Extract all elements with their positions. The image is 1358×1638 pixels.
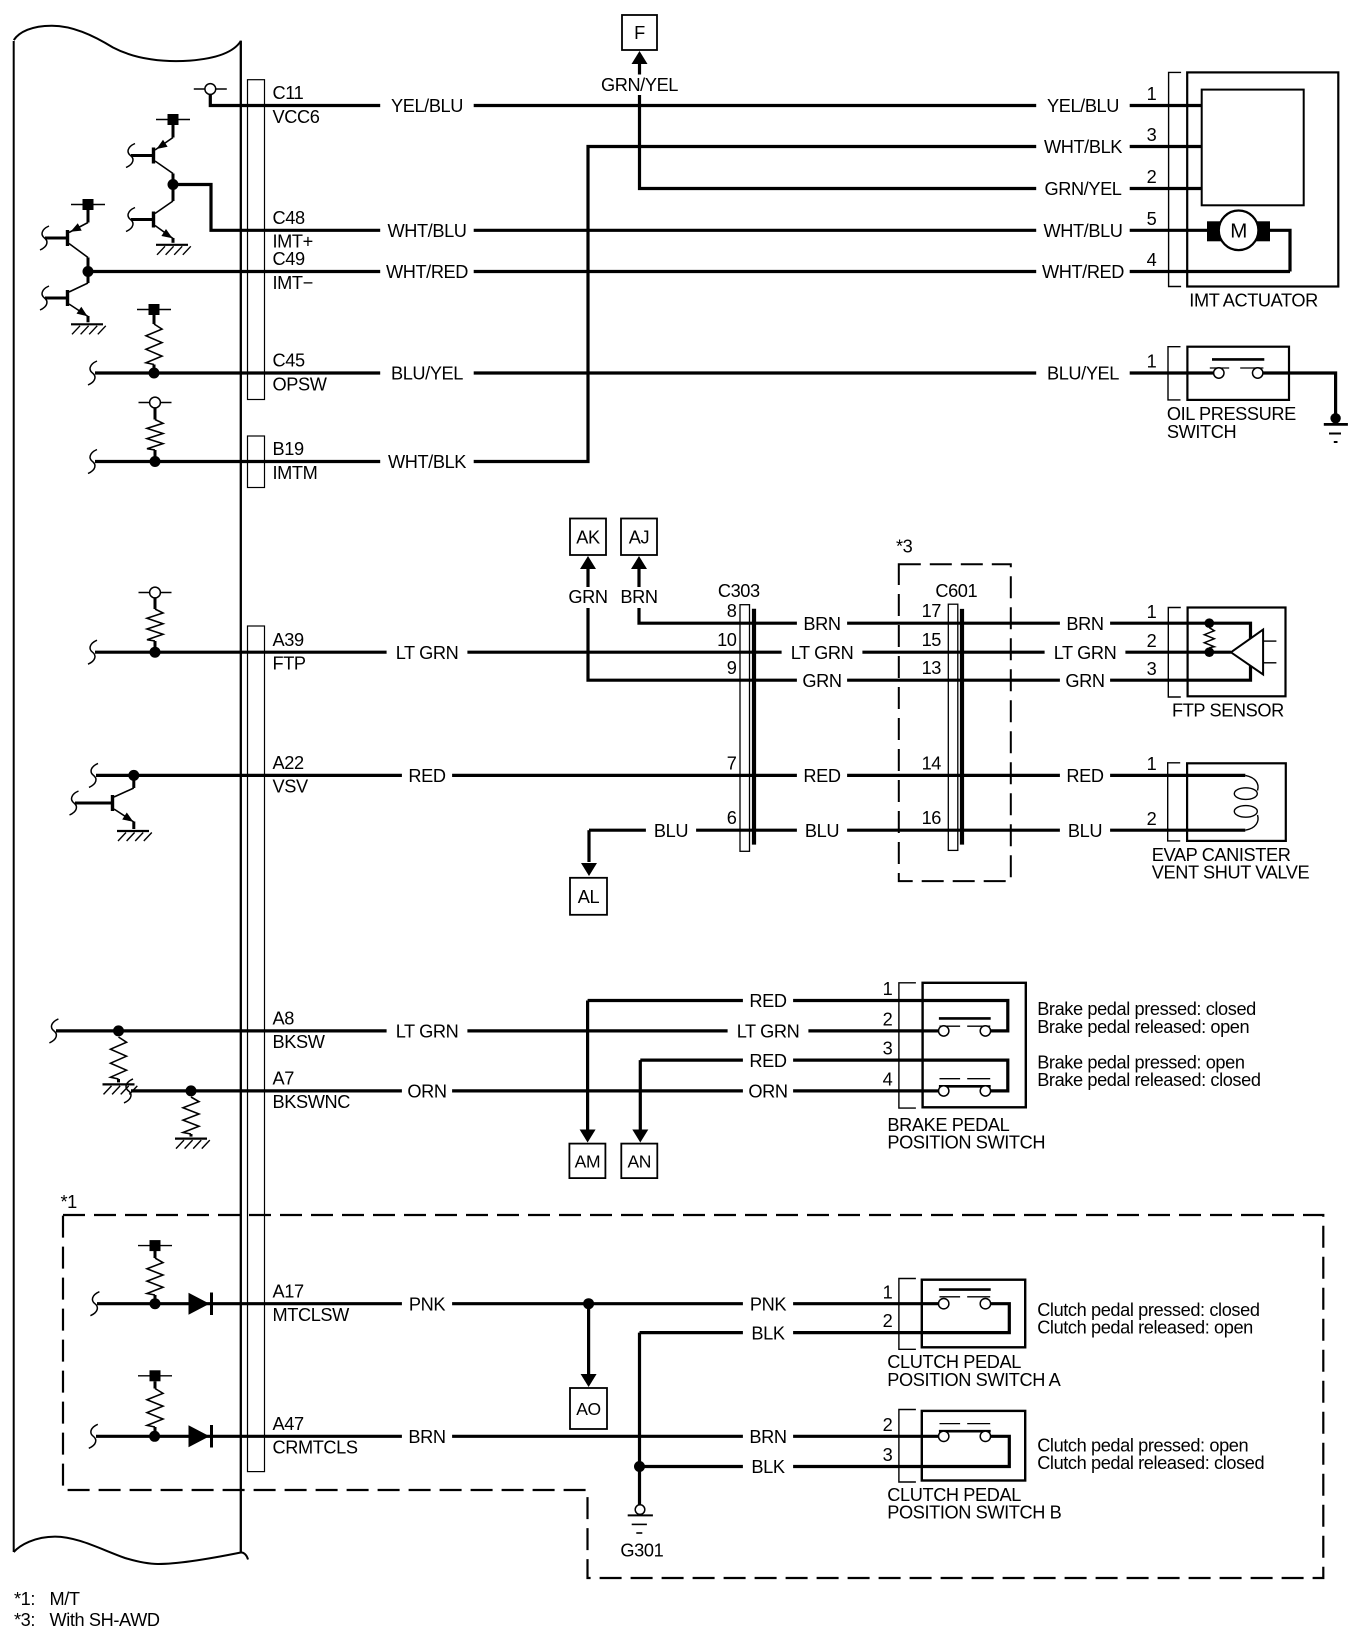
motor M (IMT actuator) [1207, 211, 1270, 251]
brake switch state annotations [1037, 999, 1260, 1090]
node B19 junction [150, 456, 161, 467]
pin B19/IMTM label [273, 439, 318, 483]
pin A7/BKSWNC label [273, 1069, 351, 1113]
svg-text:PNK: PNK [409, 1294, 445, 1314]
transistor Q2 (NPN low-side, IMT+) [126, 185, 173, 243]
svg-text:AM: AM [575, 1151, 600, 1171]
node C49 junction [83, 266, 94, 277]
svg-text:*3:: *3: [14, 1610, 35, 1630]
clutch switch B state annotations [1037, 1435, 1264, 1472]
svg-text:IMT−: IMT− [273, 273, 313, 293]
svg-text:OPSW: OPSW [273, 374, 328, 394]
diode D1 (A17) [189, 1293, 212, 1316]
svg-text:C48: C48 [273, 208, 305, 228]
svg-text:IMTM: IMTM [273, 463, 318, 483]
BRAKE PEDAL POSITION SWITCH caption [887, 1115, 1045, 1153]
FTP SENSOR box [1188, 608, 1286, 697]
svg-text:10: 10 [717, 630, 737, 650]
wire WHT/RED: C49 to IMT ACTUATOR pin 4 [88, 230, 1290, 282]
svg-text:RED: RED [408, 766, 445, 786]
ECM connector rectangle group 2 (B19) [248, 436, 265, 488]
svg-text:BLU: BLU [805, 821, 839, 841]
svg-text:RED: RED [749, 1051, 786, 1071]
wire BLU/YEL: C45 to OIL PRESSURE SWITCH pin 1 [95, 364, 1214, 384]
svg-text:1: 1 [1147, 754, 1157, 774]
svg-text:5: 5 [1147, 209, 1157, 229]
C601 pin numbers [922, 601, 942, 828]
svg-text:RED: RED [1066, 766, 1103, 786]
svg-text:BKSWNC: BKSWNC [273, 1092, 351, 1112]
svg-text:C45: C45 [273, 351, 305, 371]
arrow to AL [581, 830, 597, 876]
svg-text:1: 1 [1147, 602, 1157, 622]
arrow to AK + GRN tag [568, 556, 607, 607]
OIL PRESSURE SWITCH contacts [1210, 359, 1265, 378]
svg-text:2: 2 [1147, 167, 1157, 187]
pull-up supply circle (VCC6) [194, 84, 227, 95]
svg-text:LT GRN: LT GRN [791, 643, 854, 663]
svg-text:A17: A17 [273, 1281, 304, 1301]
pull-up circle + resistor (IMTM) [139, 397, 172, 461]
wire BLK: clutch switch A pin 2 to G301 [640, 1323, 922, 1505]
wire PNK: A17 to clutch switch A pin 1 and AO [97, 1294, 922, 1314]
BRAKE PEDAL POSITION SWITCH box [923, 983, 1026, 1108]
svg-text:3: 3 [883, 1445, 893, 1465]
pin A17/MTCLSW label [273, 1281, 351, 1325]
svg-text:3: 3 [1147, 659, 1157, 679]
wire WHT/BLU: C48 to IMT ACTUATOR pin 5 [173, 185, 1207, 242]
CLUTCH PEDAL POSITION SWITCH A connector bracket [899, 1279, 916, 1350]
svg-text:6: 6 [727, 808, 737, 828]
wire LT GRN: A39 to FTP SENSOR pin 2 [95, 643, 1231, 663]
svg-text:9: 9 [727, 658, 737, 678]
C303 pin numbers [717, 601, 737, 828]
svg-text:VSV: VSV [273, 777, 309, 797]
svg-text:AJ: AJ [629, 528, 649, 548]
svg-text:B19: B19 [273, 439, 304, 459]
svg-text:1: 1 [1147, 84, 1157, 104]
wire BLK: clutch switch B pin 3 [640, 1457, 922, 1477]
FTP SENSOR connector bracket [1168, 608, 1181, 698]
pin C11/VCC6 label [273, 83, 320, 127]
svg-text:FTP: FTP [273, 654, 306, 674]
transistor Q5 (NPN, VSV driver) [70, 775, 134, 829]
clutch switch A pin numbers [883, 1282, 893, 1331]
svg-text:A22: A22 [273, 753, 304, 773]
svg-text:LT GRN: LT GRN [396, 1022, 459, 1042]
svg-text:4: 4 [1147, 250, 1157, 270]
pin C48/IMT+ label [273, 208, 313, 252]
svg-text:14: 14 [922, 753, 942, 773]
svg-text:Brake pedal released: open: Brake pedal released: open [1037, 1017, 1249, 1037]
dashed option box *3 (With SH-AWD) [896, 537, 1011, 882]
svg-text:C601: C601 [935, 581, 977, 601]
wire YEL/BLU: C11 to IMT ACTUATOR pin 1 [210, 95, 1201, 117]
CLUTCH PEDAL POSITION SWITCH B connector bracket [899, 1410, 916, 1483]
svg-text:WHT/BLK: WHT/BLK [1044, 137, 1122, 157]
broken-wire squiggle (A47 row) [89, 1424, 98, 1448]
ECM connector rectangle group 3 (A-pins) [248, 626, 265, 1472]
svg-text:4: 4 [883, 1070, 893, 1090]
EVAP VALVE pin numbers [1147, 754, 1157, 829]
svg-text:CRMTCLS: CRMTCLS [273, 1438, 358, 1458]
connector box AJ [621, 519, 657, 556]
svg-text:2: 2 [883, 1311, 893, 1331]
resistor to ground (BKSW input) [111, 1037, 127, 1082]
clutch switch B contacts (normally closed) [922, 1424, 1010, 1467]
broken-wire squiggle (C45 row) [88, 361, 97, 385]
svg-text:7: 7 [727, 753, 737, 773]
svg-text:2: 2 [883, 1415, 893, 1435]
footnotes [14, 1589, 160, 1630]
svg-text:Clutch pedal released: closed: Clutch pedal released: closed [1037, 1453, 1264, 1473]
connector box AK [570, 519, 606, 556]
arrow to AN [632, 1060, 648, 1142]
broken-wire squiggle (A17 row) [90, 1292, 99, 1316]
svg-text:BRN: BRN [803, 614, 840, 634]
node PNK/AO junction [583, 1298, 594, 1309]
svg-text:YEL/BLU: YEL/BLU [391, 96, 463, 116]
in-line connector C601 [935, 581, 977, 850]
wire LT GRN: A8 to brake switch pin 2 [56, 1022, 923, 1042]
svg-text:C11: C11 [273, 83, 304, 103]
ECM connector rectangle group 1 (C11/C48/C49/C45) [248, 80, 265, 400]
OIL PRESSURE SWITCH connector bracket [1168, 347, 1181, 400]
in-line connector C303 [718, 581, 760, 852]
svg-text:VENT SHUT VALVE: VENT SHUT VALVE [1152, 862, 1310, 882]
wire: oil pressure switch to ground [1263, 373, 1336, 414]
svg-text:M/T: M/T [50, 1589, 80, 1609]
IMT ACTUATOR box [1187, 72, 1338, 286]
FTP sensor amplifier triangle [1231, 630, 1277, 675]
arrow to AJ + BRN tag [620, 556, 657, 607]
svg-text:BRN: BRN [1066, 614, 1103, 634]
clutch switch B pin numbers [883, 1415, 893, 1465]
svg-text:POSITION SWITCH B: POSITION SWITCH B [887, 1503, 1061, 1523]
wire GRN: AK to FTP SENSOR pin 3 [588, 608, 1251, 691]
svg-text:AL: AL [578, 887, 600, 907]
svg-text:A39: A39 [273, 630, 304, 650]
connector box F [622, 15, 657, 50]
svg-text:A7: A7 [273, 1069, 295, 1089]
svg-text:17: 17 [922, 601, 942, 621]
transistor Q4 (NPN low-side, IMT-) [40, 272, 88, 323]
svg-text:MTCLSW: MTCLSW [273, 1305, 351, 1325]
svg-text:YEL/BLU: YEL/BLU [1047, 96, 1119, 116]
svg-text:GRN/YEL: GRN/YEL [601, 75, 678, 95]
pull-up circle + resistor (FTP) [139, 587, 172, 652]
transistor Q1 (PNP high-side, IMT+) [126, 138, 173, 185]
broken-wire squiggle (A7 row) [124, 1079, 133, 1103]
svg-text:WHT/RED: WHT/RED [386, 262, 468, 282]
svg-text:ORN: ORN [407, 1082, 446, 1102]
svg-text:FTP SENSOR: FTP SENSOR [1172, 701, 1284, 721]
svg-text:C303: C303 [718, 581, 760, 601]
CLUTCH PEDAL POSITION SWITCH A box [922, 1280, 1025, 1348]
wire RED: brake switch pin 1 to AM [588, 991, 923, 1011]
svg-text:2: 2 [883, 1010, 893, 1030]
broken-wire squiggle (A39 row) [88, 640, 97, 664]
clutch switch A contacts (normally open) [922, 1290, 1010, 1333]
svg-text:ORN: ORN [748, 1082, 787, 1102]
pin C45/OPSW label [273, 351, 328, 395]
svg-text:Brake pedal released: closed: Brake pedal released: closed [1037, 1070, 1260, 1090]
pin A39/FTP label [273, 630, 306, 674]
brake switch contact set 1 (normally open) [923, 1001, 1008, 1037]
CLUTCH PEDAL POSITION SWITCH B box [922, 1411, 1025, 1481]
svg-text:PNK: PNK [750, 1294, 786, 1314]
svg-text:GRN: GRN [568, 587, 607, 607]
svg-text:GRN/YEL: GRN/YEL [1044, 179, 1121, 199]
svg-text:AK: AK [576, 528, 600, 548]
ground (BKSW resistor) [103, 1083, 135, 1085]
svg-text:RED: RED [749, 991, 786, 1011]
EVAP VALVE connector bracket [1168, 763, 1181, 841]
svg-text:2: 2 [1147, 809, 1157, 829]
ground (Q5 emitter) [117, 830, 149, 832]
power symbol P3 + resistor (OPSW pull-up) [137, 304, 171, 373]
ground G (oil pressure switch) [1324, 413, 1348, 442]
pin A47/CRMTCLS label [273, 1414, 358, 1458]
svg-text:A47: A47 [273, 1414, 304, 1434]
svg-text:RED: RED [803, 766, 840, 786]
svg-text:2: 2 [1147, 631, 1157, 651]
wire RED: brake switch pin 3 to AN [640, 1051, 922, 1071]
svg-text:3: 3 [883, 1039, 893, 1059]
svg-text:1: 1 [883, 979, 893, 999]
arrow to AO [581, 1304, 597, 1387]
svg-text:WHT/BLU: WHT/BLU [1043, 221, 1122, 241]
arrow to AM [580, 1001, 596, 1143]
resistor to ground (BKSWNC input) [183, 1097, 199, 1137]
diode D2 (A47) [189, 1425, 212, 1448]
svg-text:BLU/YEL: BLU/YEL [391, 364, 463, 384]
IMT ACTUATOR inner block [1202, 90, 1304, 206]
wire GRN/YEL: F / IMT ACTUATOR pin 2 [600, 75, 1202, 199]
FTP SENSOR pin numbers [1147, 602, 1157, 679]
svg-text:BLU: BLU [1068, 821, 1102, 841]
BRAKE PEDAL POSITION SWITCH connector bracket [899, 983, 916, 1108]
brake switch pin numbers [883, 979, 893, 1089]
ground (Q2 emitter) [156, 244, 188, 246]
svg-text:*1:: *1: [14, 1589, 35, 1609]
svg-text:GRN: GRN [1065, 671, 1104, 691]
svg-text:BRN: BRN [620, 587, 657, 607]
wire BLU: C303 pin 6 to EVAP VALVE pin 2 and AL [589, 821, 1245, 841]
svg-text:BKSW: BKSW [273, 1032, 326, 1052]
svg-text:BLK: BLK [751, 1457, 784, 1477]
connector box AN [621, 1144, 657, 1179]
svg-text:VCC6: VCC6 [273, 107, 320, 127]
connector box AO [570, 1388, 607, 1429]
svg-text:C49: C49 [273, 249, 305, 269]
EVAP VALVE box [1187, 763, 1286, 841]
power symbol P2 (C49 driver) [71, 199, 105, 223]
svg-text:IMT ACTUATOR: IMT ACTUATOR [1189, 290, 1318, 310]
pin C49/IMT− label [273, 249, 313, 293]
CLUTCH PEDAL POSITION SWITCH A caption [887, 1352, 1061, 1390]
svg-text:BRN: BRN [408, 1427, 445, 1447]
svg-text:LT GRN: LT GRN [1054, 643, 1117, 663]
broken-wire squiggle (A22 row) [89, 763, 98, 787]
svg-text:*1: *1 [61, 1192, 78, 1212]
connector box AL [570, 878, 607, 915]
svg-text:With SH-AWD: With SH-AWD [50, 1610, 160, 1630]
wire BRN: A47 to clutch switch B pin 2 [96, 1427, 922, 1447]
CLUTCH PEDAL POSITION SWITCH B caption [887, 1485, 1061, 1523]
ECM/PCM body outline (torn-edge box) [14, 26, 248, 1564]
EVAP valve solenoid coil [1234, 775, 1258, 830]
svg-text:SWITCH: SWITCH [1167, 422, 1236, 442]
broken-wire squiggle (A8 row) [49, 1019, 58, 1043]
svg-text:LT GRN: LT GRN [396, 643, 459, 663]
connector box AM [569, 1144, 605, 1179]
svg-text:GRN: GRN [802, 671, 841, 691]
dashed option box *1 (M/T) [61, 1192, 1324, 1578]
svg-text:8: 8 [727, 601, 737, 621]
svg-text:WHT/BLK: WHT/BLK [388, 452, 466, 472]
pin A22/VSV label [273, 753, 309, 797]
svg-text:BRN: BRN [749, 1427, 786, 1447]
svg-text:WHT/RED: WHT/RED [1042, 262, 1124, 282]
ground (Q4 emitter) [71, 323, 103, 325]
node C48 junction [168, 179, 179, 190]
svg-text:BLU: BLU [654, 821, 688, 841]
wire ORN: A7 to brake switch pin 4 [131, 1082, 923, 1102]
svg-text:WHT/BLU: WHT/BLU [387, 221, 466, 241]
svg-text:A8: A8 [273, 1009, 295, 1029]
power symbol + resistor (MTCLSW pull-up) [138, 1240, 172, 1304]
svg-text:16: 16 [922, 808, 942, 828]
svg-text:Clutch pedal released: open: Clutch pedal released: open [1037, 1318, 1253, 1338]
svg-text:M: M [1230, 220, 1247, 243]
node A47 junction [149, 1431, 160, 1442]
node A22 junction [128, 770, 139, 781]
pin A8/BKSW label [273, 1009, 326, 1053]
node A8 junction [113, 1025, 124, 1036]
svg-text:G301: G301 [620, 1541, 663, 1561]
node BLK junction (switch B) [634, 1461, 645, 1472]
transistor Q3 (PNP high-side, IMT-) [40, 223, 88, 272]
svg-text:AO: AO [576, 1399, 601, 1419]
svg-text:15: 15 [922, 630, 942, 650]
wire RED: A22 to EVAP VALVE pin 1 [96, 766, 1245, 786]
svg-text:POSITION SWITCH: POSITION SWITCH [887, 1132, 1045, 1152]
OIL PRESSURE SWITCH box [1187, 347, 1289, 400]
ground G301 [620, 1505, 663, 1561]
node A7 junction [186, 1085, 197, 1096]
svg-text:13: 13 [922, 658, 942, 678]
svg-text:3: 3 [1147, 125, 1157, 145]
node A17 junction [150, 1298, 161, 1309]
svg-text:1: 1 [883, 1282, 893, 1302]
clutch switch A state annotations [1037, 1300, 1259, 1337]
wire WHT/BLK: B19 to IMT ACTUATOR pin 3 [95, 137, 1202, 472]
svg-text:POSITION SWITCH A: POSITION SWITCH A [887, 1370, 1061, 1390]
EVAP VALVE caption [1152, 845, 1310, 883]
node A39 junction [150, 647, 161, 658]
power symbol + resistor (CRMTCLS pull-up) [138, 1370, 172, 1436]
FTP sensor internal resistor [1204, 618, 1214, 657]
svg-text:LT GRN: LT GRN [737, 1022, 800, 1042]
svg-text:*3: *3 [896, 537, 913, 557]
svg-text:AN: AN [628, 1151, 652, 1171]
IMT ACTUATOR connector bracket [1169, 72, 1182, 286]
node C45 junction [149, 368, 160, 379]
svg-text:1: 1 [1147, 352, 1157, 372]
wire BRN: AJ to FTP SENSOR pin 1 [639, 608, 1251, 639]
svg-text:F: F [634, 23, 645, 43]
IMT ACTUATOR pin numbers [1147, 84, 1157, 270]
svg-text:BLK: BLK [751, 1323, 784, 1343]
svg-text:BLU/YEL: BLU/YEL [1047, 364, 1119, 384]
power symbol P1 (C48 driver) [156, 114, 190, 138]
ground (BKSWNC resistor) [175, 1137, 207, 1139]
OIL PRESSURE SWITCH caption [1167, 404, 1296, 442]
broken-wire squiggle (B19 row) [88, 450, 97, 474]
brake switch contact set 2 (normally closed) [923, 1060, 1008, 1096]
arrow to F [632, 51, 648, 75]
